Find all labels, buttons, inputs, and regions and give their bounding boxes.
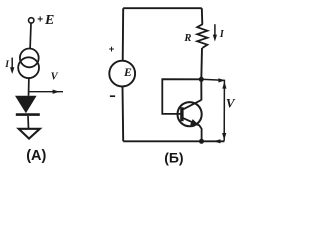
svg-text:+: + — [109, 44, 115, 55]
wire left lower (B) — [122, 86, 125, 141]
voltage arrow V (A) — [29, 90, 63, 94]
svg-text:R: R — [183, 33, 191, 44]
terminal +E — [29, 18, 34, 23]
ground (open triangle) — [19, 129, 40, 139]
feedback wire base to collector — [162, 79, 201, 114]
wire diode to ground — [27, 116, 30, 129]
svg-text:(A): (A) — [26, 148, 46, 164]
voltage arrow V (B) top horizontal — [201, 78, 225, 82]
wire right top to resistor — [201, 8, 204, 24]
junction emitter node — [199, 139, 204, 144]
wire resistor to collector — [200, 48, 203, 100]
transistor base bar — [180, 107, 183, 121]
svg-text:V: V — [226, 96, 236, 111]
voltage arrow V (B) vertical double-headed — [222, 80, 226, 140]
svg-text:E: E — [123, 66, 132, 79]
arrowhead on bottom wire (pointing left) — [213, 139, 220, 143]
wire left upper (B) — [122, 8, 125, 61]
wire top (B) — [123, 7, 202, 9]
label - (source) — [110, 95, 115, 97]
junction collector node — [199, 77, 204, 82]
svg-text:(Б): (Б) — [164, 150, 183, 166]
svg-text:I: I — [219, 29, 225, 40]
arrow I (B, downward) — [213, 24, 217, 41]
transistor collector lead — [182, 100, 202, 110]
diode cathode bar — [16, 113, 40, 116]
wire current source to diode node — [28, 77, 30, 96]
svg-text:I: I — [4, 60, 9, 70]
transistor Q (circle) — [178, 102, 202, 126]
wire bottom (B) — [123, 140, 224, 142]
svg-text:+: + — [37, 15, 43, 26]
svg-text:V: V — [51, 72, 59, 83]
current source I (two overlapping circles) — [18, 49, 39, 79]
voltage source E — [109, 61, 135, 87]
resistor R (zigzag) — [197, 24, 207, 48]
emitter arrowhead — [190, 119, 200, 126]
diode D (filled triangle) — [15, 96, 37, 114]
arrow I (downward) — [10, 58, 14, 74]
label +E — [37, 13, 54, 28]
transistor emitter lead — [182, 118, 202, 142]
wire terminal to current source — [29, 23, 32, 48]
svg-text:E: E — [44, 13, 54, 28]
